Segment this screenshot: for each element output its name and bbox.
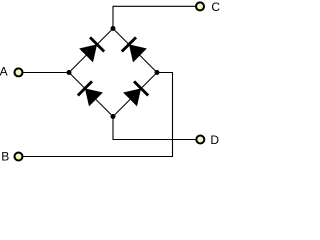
svg-text:C: C <box>211 0 220 14</box>
svg-text:A: A <box>0 65 8 79</box>
svg-text:B: B <box>1 150 9 164</box>
svg-text:D: D <box>210 133 219 147</box>
